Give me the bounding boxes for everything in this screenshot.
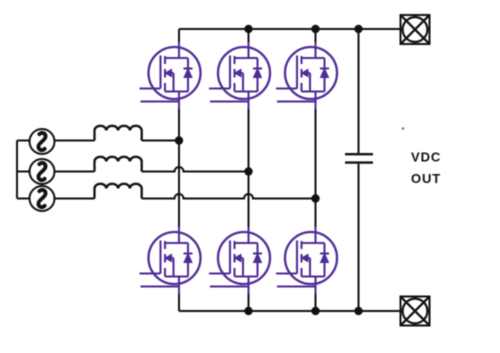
wire leg 1 upper drain bbox=[178, 29, 180, 58]
wire leg 2 upper source to phase B bbox=[248, 92, 250, 172]
inductor L3 bbox=[95, 184, 142, 199]
wire source V3 left stub bbox=[17, 198, 30, 200]
wire leg 2 phase B to lower drain bbox=[248, 172, 250, 244]
wire phase A to leg 1 bbox=[142, 140, 179, 142]
wire neutral bus bbox=[16, 141, 18, 199]
wire leg 3 upper drain bbox=[315, 29, 317, 58]
transistor Q3 upper leg 3 bbox=[276, 42, 337, 109]
terminal DC- output bbox=[401, 297, 430, 326]
wire top DC rail bbox=[179, 28, 400, 30]
wire leg 1 lower source to bottom rail bbox=[178, 277, 180, 312]
node top rail capacitor branch bbox=[354, 25, 362, 33]
svg-text:OUT: OUT bbox=[411, 171, 441, 186]
wire bottom DC rail bbox=[179, 310, 400, 312]
wire phase C to leg 3 with hops over legs 1 and 2 bbox=[142, 194, 316, 199]
node bottom rail leg 3 bbox=[311, 307, 319, 315]
wire leg 1 upper source to phase A bbox=[178, 92, 180, 141]
AC source V1 bbox=[30, 129, 55, 154]
transistor Q6 lower leg 3 bbox=[276, 227, 337, 294]
node bottom rail leg 2 bbox=[244, 307, 252, 315]
inductor L2 bbox=[95, 157, 142, 172]
terminal DC+ output bbox=[401, 15, 430, 44]
wire capacitor branch lower bbox=[358, 164, 360, 311]
transistor Q1 upper leg 1 bbox=[140, 42, 201, 109]
node bottom rail capacitor branch bbox=[354, 307, 362, 315]
wire V3 to L3 bbox=[55, 198, 95, 200]
wire V1 to L1 bbox=[55, 140, 95, 142]
wire leg 3 upper source to phase C bbox=[315, 92, 317, 199]
inductor L1 bbox=[95, 126, 142, 141]
wire leg 1 phase A to lower drain bbox=[178, 141, 180, 244]
AC source V2 bbox=[30, 159, 55, 184]
node top rail leg 3 bbox=[311, 25, 319, 33]
node top rail leg 2 bbox=[244, 25, 252, 33]
stray dot artifact bbox=[402, 127, 405, 130]
wire leg 3 phase C to lower drain bbox=[315, 199, 317, 244]
capacitor C1 bbox=[345, 154, 373, 162]
transistor Q4 lower leg 1 bbox=[140, 227, 201, 294]
wire source V2 left stub bbox=[17, 171, 30, 173]
wire phase B to leg 2 with hop over leg 1 bbox=[142, 167, 249, 172]
transistor Q5 lower leg 2 bbox=[209, 227, 270, 294]
wire source V1 left stub bbox=[17, 140, 30, 142]
wire leg 2 lower source to bottom rail bbox=[248, 277, 250, 312]
node phase C junction bbox=[311, 194, 319, 202]
node phase B junction bbox=[244, 167, 252, 175]
node phase A junction bbox=[175, 136, 183, 144]
wire V2 to L2 bbox=[55, 171, 95, 173]
transistor Q2 upper leg 2 bbox=[209, 42, 270, 109]
svg-text:VDC: VDC bbox=[411, 150, 441, 165]
wire leg 2 upper drain bbox=[248, 29, 250, 58]
wire leg 3 lower source to bottom rail bbox=[315, 277, 317, 312]
AC source V3 bbox=[30, 186, 55, 211]
wire capacitor branch upper bbox=[358, 29, 360, 153]
